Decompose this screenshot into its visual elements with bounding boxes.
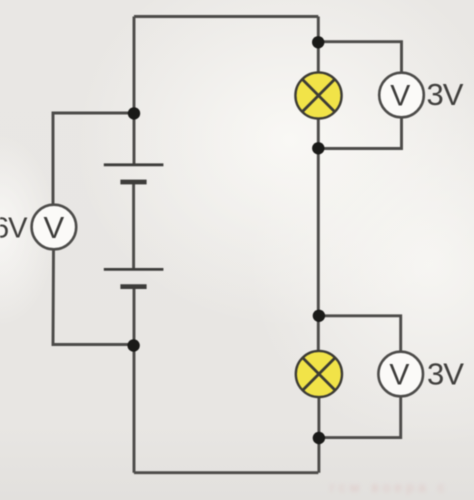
wire voltmeter V2 top branch: [319, 316, 401, 353]
svg-text:3V: 3V: [427, 77, 464, 112]
node junction L1 top: [312, 36, 324, 48]
wire right vertical top (to lamp L1): [317, 17, 320, 74]
svg-text:V: V: [390, 80, 410, 113]
wire right vertical middle (L1 to L2): [317, 119, 320, 352]
battery B1 cell 1 long plate: [104, 163, 164, 166]
battery B1 cell 1 short plate: [120, 180, 146, 185]
voltmeter V1 circle: [379, 73, 424, 118]
wire voltmeter V3 (left 6V) bottom branch: [53, 249, 134, 344]
lamp L1: [295, 72, 341, 118]
wire voltmeter V2 bottom branch: [319, 396, 401, 438]
node junction L2 bottom: [313, 432, 325, 444]
svg-text:3V: 3V: [427, 356, 464, 391]
voltmeter V2 circle: [378, 352, 423, 397]
wire right vertical bottom (L2 to bottom): [317, 397, 320, 473]
voltmeter V3 circle (left): [32, 205, 77, 250]
faint print bleed-through bottom right: [330, 479, 449, 495]
node junction top-left: [128, 107, 140, 119]
battery B1 cell 2 long plate: [104, 268, 164, 271]
lamp L2: [296, 351, 342, 397]
svg-text:V: V: [389, 359, 409, 392]
svg-text:6V: 6V: [0, 213, 28, 245]
battery B1 cell 2 short plate: [120, 284, 146, 289]
wire bottom horizontal: [134, 471, 318, 474]
wire voltmeter V3 (left 6V) top branch: [53, 113, 134, 205]
node junction bottom-left: [127, 339, 139, 351]
wire left vertical lower (battery to bottom): [133, 287, 136, 473]
svg-text:V: V: [44, 210, 65, 245]
node junction L2 top: [313, 310, 325, 322]
wire voltmeter V1 top branch: [318, 42, 401, 74]
wire top horizontal: [134, 15, 318, 18]
wire between battery cells: [132, 182, 135, 269]
wire left vertical upper (to battery): [133, 17, 136, 165]
wire voltmeter V1 bottom branch: [318, 117, 401, 149]
node junction L1 bottom: [312, 142, 324, 154]
